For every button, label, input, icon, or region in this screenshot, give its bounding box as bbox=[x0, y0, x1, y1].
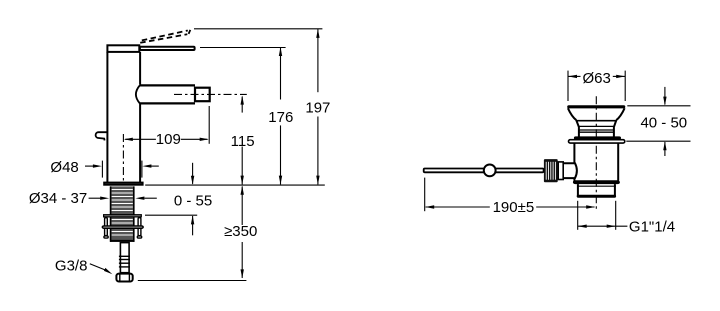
body centerline bbox=[122, 134, 124, 185]
body bottom lip bbox=[574, 181, 619, 183]
tailpiece top line bbox=[577, 185, 616, 187]
svg-text:109: 109 bbox=[156, 131, 181, 148]
>=350 bottom extension line bbox=[138, 280, 247, 282]
svg-text:197: 197 bbox=[305, 100, 330, 117]
supply tube bbox=[120, 243, 129, 273]
pop-up rod hook bbox=[96, 132, 107, 140]
spout centerline bbox=[174, 93, 247, 95]
dimension diameter 48 bbox=[85, 161, 159, 178]
tailpiece left edge bbox=[577, 184, 579, 196]
deck reference line bbox=[145, 184, 325, 186]
base flange bbox=[104, 183, 142, 185]
diameter 63 extension lines bbox=[567, 71, 569, 101]
dimension diameter 63 bbox=[568, 75, 625, 77]
aerator bbox=[195, 88, 210, 102]
flange tier 2 bbox=[569, 140, 625, 143]
hex nut facet lines bbox=[119, 275, 121, 282]
spout left rounded end bbox=[136, 85, 140, 103]
lever extension line bbox=[200, 47, 286, 49]
plug flare right bbox=[616, 108, 624, 120]
dimension 115 bbox=[241, 97, 243, 185]
svg-text:≥350: ≥350 bbox=[224, 223, 257, 240]
plug under-rim line bbox=[576, 120, 617, 122]
tailpiece bottom bar bbox=[577, 195, 616, 198]
dimension 197 bbox=[317, 29, 319, 184]
dimension G1"1/4 bbox=[578, 225, 628, 227]
lever handle raised (dashed) upper line bbox=[142, 31, 188, 41]
faucet body left edge bbox=[106, 52, 108, 183]
plug rim bbox=[567, 105, 625, 108]
pivot knurled nut bbox=[544, 159, 558, 182]
svg-text:G3/8: G3/8 bbox=[55, 258, 88, 275]
dimension 109 bbox=[125, 138, 207, 140]
neck right side bbox=[614, 121, 616, 137]
right clamp post bbox=[138, 218, 141, 236]
right post foot bbox=[137, 236, 141, 238]
svg-text:115: 115 bbox=[231, 133, 255, 150]
svg-text:0 - 55: 0 - 55 bbox=[174, 192, 212, 209]
svg-text:190±5: 190±5 bbox=[493, 199, 535, 216]
plug flare left bbox=[568, 108, 577, 120]
supply hex nut G3/8 bbox=[116, 274, 132, 282]
dimension 190+-5 bbox=[426, 206, 595, 208]
0-55 lower reference line bbox=[145, 214, 197, 216]
dimension diameter 34-37 bbox=[89, 197, 157, 199]
lever handle (solid) bbox=[140, 47, 195, 50]
drain body right edge bbox=[617, 144, 619, 181]
drain body left edge bbox=[573, 144, 575, 181]
spout bottom edge bbox=[140, 102, 196, 104]
tube ridge lines bbox=[119, 256, 130, 267]
tailpiece extension lines bbox=[577, 201, 579, 230]
left clamp post bbox=[105, 218, 108, 236]
neck left side bbox=[577, 121, 579, 137]
rod extension line bbox=[424, 178, 426, 212]
pivot collar bbox=[558, 162, 563, 180]
aerator extension line bbox=[208, 106, 210, 144]
neck ring lines bbox=[579, 126, 614, 132]
40-50 extension lines bbox=[627, 105, 690, 107]
svg-text:Ø34 - 37: Ø34 - 37 bbox=[29, 190, 87, 207]
pivot port bbox=[564, 163, 577, 178]
pivot rod bbox=[424, 169, 544, 173]
svg-text:40 - 50: 40 - 50 bbox=[640, 115, 687, 132]
svg-text:176: 176 bbox=[268, 109, 293, 126]
mounting nut bar bbox=[102, 226, 143, 228]
svg-text:G1"1/4: G1"1/4 bbox=[629, 218, 675, 235]
lever raised tip dash bbox=[189, 30, 191, 34]
flange tier 1 bbox=[575, 137, 621, 139]
dimension 176 bbox=[280, 48, 282, 185]
drain centerline bbox=[595, 96, 597, 210]
dimension >=350 bbox=[241, 186, 243, 278]
svg-text:Ø63: Ø63 bbox=[583, 70, 611, 87]
mounting washer plate bbox=[104, 215, 142, 217]
dimension 40-50 bbox=[664, 87, 666, 156]
left post foot bbox=[104, 236, 108, 238]
raised lever tip extension line bbox=[194, 28, 322, 30]
rod ball bbox=[484, 165, 496, 177]
dimension 0-55 bbox=[192, 163, 194, 236]
tailpiece right edge bbox=[614, 184, 616, 196]
svg-text:Ø48: Ø48 bbox=[50, 159, 78, 176]
spout top edge bbox=[140, 84, 196, 86]
lever handle raised (dashed) lower line bbox=[140, 34, 187, 43]
threaded shank bbox=[110, 186, 135, 241]
faucet body right edge bbox=[139, 52, 141, 85]
faucet cap bbox=[107, 45, 139, 52]
